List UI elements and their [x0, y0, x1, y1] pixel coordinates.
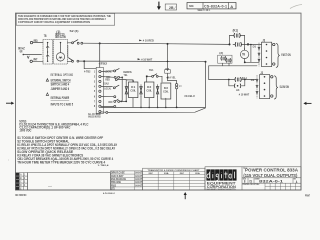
svg-text:J2: J2: [260, 71, 263, 75]
svg-text:**: **: [179, 87, 182, 89]
svg-text:# 10 WHT: # 10 WHT: [239, 94, 250, 97]
svg-text:PRINT: PRINT: [305, 195, 310, 198]
svg-text:NUMBER: NUMBER: [255, 179, 260, 181]
pilot lamp: [56, 53, 64, 61]
twisted pair note: [88, 112, 101, 119]
resistor R2 box: [165, 43, 171, 81]
relay coil K3: [161, 83, 171, 99]
wire K2 coil top: [146, 77, 148, 82]
svg-text:SLOW ON: SLOW ON: [280, 85, 290, 89]
fold marker arrow left: [6, 102, 14, 105]
switch S1 pole A row2: [101, 74, 128, 79]
svg-text:JUMPER 5 AND 6: JUMPER 5 AND 6: [51, 87, 70, 91]
svg-text:GN: GN: [20, 50, 23, 54]
svg-text:◂TB2: ◂TB2: [97, 62, 107, 66]
svg-text:TM HOUR TIME METER TYPE MERCER: TM HOUR TIME METER TYPE MERCER 220V 50 C…: [17, 161, 105, 165]
wire WHT to TB2: [84, 61, 96, 68]
notes block lower: [17, 136, 118, 165]
svg-text:TM: TM: [242, 53, 245, 57]
running time meter TM: [240, 44, 259, 64]
wire bus A to TB4: [209, 66, 257, 80]
svg-text:#14 YEL: #14 YEL: [167, 75, 176, 79]
note box (proprietary notice): [16, 13, 115, 25]
TB2 terminal 4: [94, 84, 101, 88]
svg-text:# 10 WHT: # 10 WHT: [141, 57, 152, 61]
DEC digital logo: [206, 169, 236, 191]
wire control bottom bus: [101, 106, 206, 108]
wire RED row3: [105, 78, 117, 81]
svg-text:CS: CS: [249, 180, 252, 184]
ground wire stub: [23, 54, 42, 59]
switch S1 pole B: [101, 83, 119, 91]
relay contact K1 (with bypass): [228, 28, 249, 46]
wire coils bottom to bus: [133, 96, 178, 108]
TB2 terminal 7: [94, 99, 101, 103]
revision table: [16, 173, 28, 191]
node bottom bus to control return: [205, 61, 207, 63]
svg-text:DEC: DEC: [149, 173, 154, 175]
svg-text:A-PL-832A-0-1: A-PL-832A-0-1: [103, 192, 116, 195]
wire S1 collectors: [117, 77, 133, 102]
svg-text:TH1: TH1: [149, 68, 154, 72]
TB2 terminal 1: [94, 70, 101, 74]
wire #10 WHT (bottom bus): [79, 57, 206, 61]
svg-text:1000 VDC: 1000 VDC: [19, 128, 32, 132]
switch S1 pole B row2: [101, 96, 126, 108]
terminal block TB4: [256, 71, 273, 99]
brace TB3 outputs: [276, 43, 291, 67]
conversion chart: [143, 168, 205, 190]
svg-text:K1: K1: [131, 85, 136, 89]
svg-text:SHEET 1 OF 1: SHEET 1 OF 1: [198, 8, 211, 12]
svg-text:A: A: [296, 180, 298, 184]
relay coil K2: [145, 82, 154, 98]
TB2 terminal 6: [94, 94, 101, 98]
external options note: [46, 73, 73, 106]
terminal block TB3: [258, 38, 275, 66]
revision description box: [28, 173, 111, 190]
svg-text:EIA: EIA: [195, 172, 200, 175]
svg-text:9-9-67: 9-9-67: [135, 183, 142, 187]
svg-text:YEL: YEL: [124, 74, 128, 77]
fold marker arrow bottom: [184, 192, 187, 199]
TB2 terminal 5: [94, 89, 101, 93]
fold marker arrow right: [303, 102, 311, 105]
circuit breaker CB1 dashed box: [43, 34, 53, 64]
thermostat TH1: [146, 68, 162, 82]
varistor R1 (neon): [168, 81, 182, 108]
svg-text:K3: K3: [164, 86, 169, 90]
svg-text:PRINTED CIRCUIT REV.: PRINTED CIRCUIT REV.: [243, 184, 260, 186]
wire K2 box to bus A: [223, 63, 230, 66]
border frame: [16, 13, 302, 190]
svg-text:EIA: EIA: [164, 172, 169, 175]
title block: [205, 167, 301, 190]
svg-text:DEC FORM NO: DEC FORM NO: [15, 194, 26, 197]
S2 mechanical linkage: [67, 46, 69, 58]
TB2 terminal 2: [94, 75, 101, 79]
svg-text:(K1): (K1): [233, 28, 238, 32]
svg-text:S1A2: S1A2: [103, 83, 109, 86]
node WHT drop: [83, 60, 85, 62]
diode D2: [156, 85, 159, 97]
relay contact K2: [218, 51, 232, 63]
svg-text:POWER CONTROL 833A: POWER CONTROL 833A: [245, 168, 299, 173]
svg-text:CS-832A-0-1: CS-832A-0-1: [204, 5, 227, 9]
wire TB2-9 to remote line: [101, 108, 205, 113]
drawing number strip: [187, 3, 236, 13]
svg-text:OFF: OFF: [108, 100, 113, 104]
svg-text:EXTERNAL POWER: EXTERNAL POWER: [51, 96, 70, 100]
svg-text:COIL: COIL: [146, 89, 152, 93]
wire J1-WHT to CB1: [32, 60, 43, 62]
wire control return drop: [205, 62, 207, 108]
svg-text:K2: K2: [147, 85, 152, 89]
switch S2 lower contacts: [68, 58, 79, 62]
svg-text:(2): (2): [219, 51, 223, 55]
svg-text:INPUTS TO 2 AND 5: INPUTS TO 2 AND 5: [51, 102, 74, 106]
top margin arrow down: [157, 2, 161, 10]
switch S1 pole A: [101, 69, 132, 74]
svg-text:UNLESS NOTED: UNLESS NOTED: [88, 114, 101, 118]
wire #10 RED (top bus): [83, 39, 230, 45]
svg-text:832A-0-1: 832A-0-1: [259, 179, 283, 183]
relay contact K3 bypass: [228, 79, 246, 92]
svg-text:J3: J3: [262, 38, 265, 42]
svg-text:A: A: [230, 4, 233, 9]
svg-text:SIZE: SIZE: [189, 4, 194, 8]
wire J1-RED to CB1: [33, 42, 43, 44]
wire K1 contact to TB3: [245, 43, 262, 45]
relay coil K1: [129, 82, 138, 98]
svg-text:FAST ON: FAST ON: [281, 53, 291, 57]
svg-text:LOCAL: LOCAL: [104, 86, 111, 90]
notes block upper: [19, 119, 89, 132]
svg-text:S2 (4): S2 (4): [70, 29, 79, 33]
connector pin J1-RED: [30, 39, 38, 44]
svg-text:COPYRIGHT 1968 BY DIGITAL EQUI: COPYRIGHT 1968 BY DIGITAL EQUIPMENT CORP…: [18, 21, 90, 24]
svg-text:COIL: COIL: [130, 89, 136, 93]
svg-text:EXTERNAL OPTIONS: EXTERNAL OPTIONS: [51, 73, 74, 77]
connector pin J1-WHT: [30, 58, 37, 63]
svg-text:#14 BLU: #14 BLU: [184, 94, 195, 98]
zone box A: [165, 4, 176, 10]
svg-text:RED: RED: [105, 78, 110, 81]
signature block: [110, 171, 142, 191]
svg-text:(115 VOLT DUAL OUTPUTS): (115 VOLT DUAL OUTPUTS): [243, 173, 298, 178]
svg-text:4-TB2: 4-TB2: [84, 70, 91, 74]
svg-text:E: E: [20, 187, 21, 191]
switch S2 upper contacts: [68, 29, 83, 44]
TB2 terminal 3: [94, 79, 101, 83]
wire TB2 left rail: [99, 43, 101, 67]
scan speck left: [8, 160, 9, 161]
svg-text:865 SLOW: 865 SLOW: [55, 35, 66, 39]
relay contact K3: [209, 78, 256, 82]
svg-text:2B: 2B: [169, 6, 174, 10]
line filter FL1 dashed box: [54, 30, 68, 64]
svg-text:# 10 RED: # 10 RED: [143, 39, 154, 43]
svg-text:TB: TB: [44, 34, 47, 38]
diode D4: [125, 87, 128, 94]
terminal strip TB2: [84, 62, 108, 114]
label 60HZ input: [18, 47, 25, 54]
diode D1: [140, 85, 143, 97]
scan smudge top right: [290, 5, 302, 9]
brace TB4 outputs: [274, 76, 289, 99]
TB2 terminal 9: [99, 111, 101, 113]
wire arrow into K1: [132, 81, 134, 82]
svg-text:COIL: COIL: [163, 90, 169, 94]
svg-text:DEC: DEC: [180, 173, 185, 175]
svg-text:STD: STD: [111, 186, 115, 190]
TB2 terminal 8: [94, 104, 101, 108]
svg-text:MAYNARD, MASSACHUSETTS: MAYNARD, MASSACHUSETTS: [207, 188, 237, 191]
node top bus / TB2 feed: [99, 42, 101, 44]
